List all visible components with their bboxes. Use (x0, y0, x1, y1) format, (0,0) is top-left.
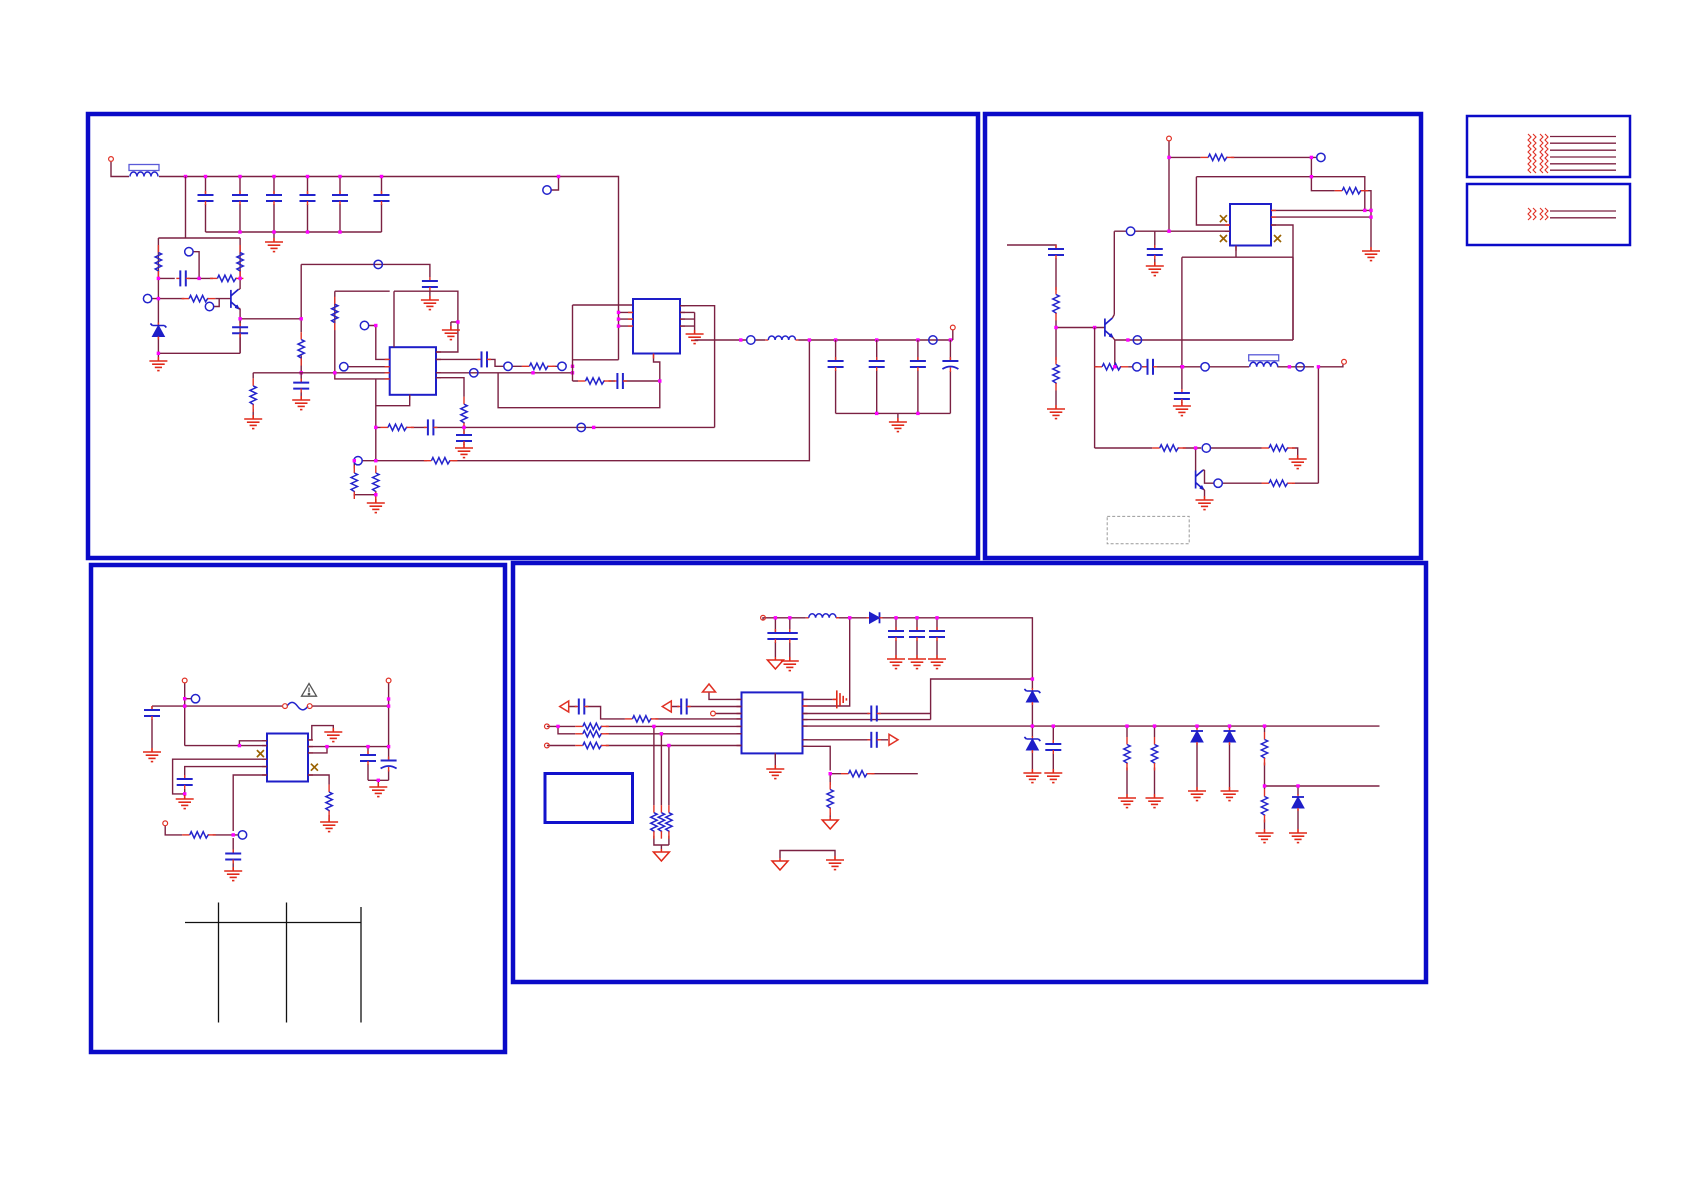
port TP13 (747, 336, 755, 344)
resistor R10 (381, 424, 415, 430)
port TP6 (360, 321, 368, 329)
capacitor C42 (888, 627, 904, 641)
IC U3 (1230, 204, 1271, 246)
capacitor C18 polarized (942, 357, 958, 372)
wire U5 left nets (547, 693, 742, 850)
capacitor C12 (456, 431, 472, 445)
capacitor C45 (575, 699, 589, 715)
port TP2 (185, 248, 193, 256)
wire top net (1169, 141, 1371, 247)
pin P2 output (950, 325, 955, 330)
resistor R48 (827, 782, 833, 816)
resistor R8 (522, 363, 556, 369)
ground osc (149, 357, 167, 371)
resistor R44 (651, 805, 657, 839)
port TP31 (238, 831, 246, 839)
resistor R45 (658, 805, 664, 839)
note2 red squiggle text (1528, 208, 1548, 220)
U5 pin stubs (737, 699, 808, 758)
power arrow up (703, 684, 716, 692)
ground R52 (1256, 829, 1274, 843)
wire row y448 (1095, 448, 1298, 471)
IC U4 (267, 734, 308, 782)
note1 red squiggle text (1528, 134, 1548, 173)
capacitor C16 (869, 357, 885, 371)
wire IC1 top cap hat (394, 291, 458, 352)
wire IC1 right row1 (436, 359, 558, 366)
ground C41 (781, 657, 799, 671)
IC U5 (742, 692, 803, 753)
x-mark U3 pin3 (1274, 235, 1281, 242)
ground cap bank (265, 238, 283, 252)
port TP26 (1202, 444, 1210, 452)
power ground R bundle (653, 849, 669, 861)
junction top net (774, 616, 777, 619)
capacitor C34 polarized (381, 757, 397, 772)
port TP3 (143, 294, 151, 302)
port TP20 (1317, 153, 1325, 161)
junction U3 nets (1167, 230, 1170, 233)
junction U5 right (829, 772, 832, 775)
junction row 427 (374, 426, 377, 429)
ground D7 (1289, 829, 1307, 843)
ground tie right (826, 856, 844, 870)
capacitor C20 (1147, 245, 1163, 259)
junction x301 (300, 317, 303, 320)
panel 2 frame (985, 114, 1421, 558)
junction row 448 (1194, 446, 1197, 449)
zener D3 (1024, 688, 1040, 705)
port TP14 (929, 336, 937, 344)
resistor R6 (250, 378, 256, 412)
diode D7 (1292, 794, 1304, 811)
resistor R40 (625, 716, 659, 722)
rotated ground U5 (833, 690, 847, 708)
capacitor C17 (910, 357, 926, 371)
pin P6 (386, 678, 391, 683)
port TP23 (1133, 363, 1141, 371)
ground caps right (369, 783, 387, 797)
ground R49 (1118, 794, 1136, 808)
wire osc row1 (158, 252, 213, 279)
ground R13 (367, 499, 385, 513)
ground C30 (143, 748, 161, 762)
port TP9 (558, 362, 566, 370)
port TP5 (374, 260, 382, 268)
capacitor C33 (360, 751, 376, 765)
ground C23 (1173, 402, 1191, 416)
port TP8 (504, 362, 512, 370)
signal arrow A2 (662, 701, 671, 712)
U2 pin stubs (628, 306, 685, 359)
junction osc row1 (157, 277, 160, 280)
wire top power net (763, 618, 1032, 720)
ground C31 (176, 795, 194, 809)
capacitor C11 (478, 351, 492, 367)
capacitor C43 (909, 627, 925, 641)
wire Q3 nets (1203, 470, 1318, 496)
port TP4 (205, 302, 213, 310)
junction base (1054, 326, 1057, 329)
inductor L2 (806, 614, 839, 618)
x-mark U3 pin2 (1220, 235, 1227, 242)
signal arrow A3 (889, 734, 898, 745)
junction osc bottom (157, 297, 160, 300)
power ground C40 (767, 657, 783, 669)
ground Q3 emitter (1196, 496, 1214, 510)
ground R26 (1289, 455, 1307, 469)
resistor R4 (182, 295, 216, 301)
capacitor C6 (374, 191, 390, 205)
wire top nets (152, 683, 389, 748)
pin P4 (1342, 359, 1347, 364)
wire row y460.7 (354, 340, 809, 499)
port TP22 (1133, 336, 1141, 344)
resistor R51 (1261, 732, 1267, 766)
wire IC2 right (680, 306, 715, 428)
pin P1 input (109, 157, 114, 162)
resistor R12 (351, 466, 357, 500)
resistor R2 (237, 245, 243, 279)
wire Q1 collector emitter (238, 289, 301, 353)
fuse F1 end circles (283, 704, 288, 709)
junction rail (1031, 724, 1034, 727)
signal arrow A1 (560, 701, 569, 712)
port TP11 (577, 423, 585, 431)
ground U1 top right (442, 326, 460, 340)
ground C32 (224, 867, 242, 881)
note2 lines (1550, 211, 1616, 218)
wire long row y372.8 (253, 373, 390, 415)
wire U3 bottom nets (1114, 225, 1293, 402)
junction row 460 (374, 459, 377, 462)
ground C9 (421, 296, 439, 310)
panel 3 frame (91, 565, 505, 1052)
panel 1 frame (88, 114, 978, 558)
capacitor C30 (144, 706, 160, 720)
capacitor C13 (424, 419, 438, 435)
capacitor C32 (225, 850, 241, 864)
junction top (183, 697, 186, 700)
ground R31 (320, 818, 338, 832)
resistor R1 (155, 245, 161, 279)
capacitor C2 (232, 191, 248, 205)
resistor R41 (575, 723, 609, 729)
junction U4 right (325, 745, 328, 748)
wire top rail net VIN (111, 162, 619, 360)
blue note box (545, 774, 633, 823)
resistor R23 (1053, 357, 1059, 391)
wire mid vertical x301 (301, 264, 430, 372)
resistor R52 (1261, 789, 1267, 823)
inductor L1 (765, 336, 798, 340)
zener diode D1 (150, 323, 166, 340)
junction dots top rail (184, 175, 187, 178)
wire oscillator block outline (158, 177, 240, 358)
capacitor C9 (422, 277, 438, 291)
capacitor C48 (867, 732, 881, 748)
port TP30 (191, 695, 199, 703)
junction row 366 (1181, 365, 1184, 368)
port TP10 (470, 369, 478, 377)
wire U5 right nets (775, 699, 1379, 817)
capacitor C1 (198, 191, 214, 205)
diode D5 (1191, 728, 1203, 745)
ground D6 (1221, 787, 1239, 801)
capacitor C47 (867, 706, 881, 722)
port TP12 (354, 457, 362, 465)
capacitor C46 (677, 699, 691, 715)
junction U5 left (556, 725, 559, 728)
fuse F1 (287, 702, 308, 710)
junction Q2 (1126, 338, 1129, 341)
IC U2 (633, 299, 680, 354)
resistor R14 (578, 378, 612, 384)
U3 pin stubs (1225, 210, 1276, 250)
junction bottom row (232, 833, 235, 836)
ground C43 (908, 655, 926, 669)
transistor Q2 (1105, 318, 1113, 337)
wire U4 top right ground (308, 726, 333, 740)
ground D5 (1188, 787, 1206, 801)
ground R6 (244, 415, 262, 429)
capacitor C14 (613, 373, 627, 389)
pin P7 (163, 821, 168, 826)
diode D6 (1224, 728, 1236, 745)
resistor R3 (210, 275, 244, 281)
junction output caps (875, 412, 878, 415)
junction U1 right (456, 320, 459, 323)
note box 1 (1467, 116, 1630, 177)
resistor R31 (326, 785, 332, 819)
capacitor C22 (1144, 359, 1158, 375)
capacitor C8 (232, 323, 248, 337)
resistor R22 (1053, 287, 1059, 321)
wire IC1 left connections (335, 291, 390, 379)
ground R23 (1047, 405, 1065, 419)
capacitor C3 (266, 191, 282, 205)
wire Q2 collector emitter (1112, 257, 1293, 367)
capacitor C15 (828, 357, 844, 371)
wire row y427.4 (376, 379, 715, 461)
power ground R48 (822, 817, 838, 829)
resistor R21 (1335, 188, 1369, 194)
capacitor C31 (177, 775, 193, 789)
wire U4 bottom resistor (308, 775, 329, 818)
resistor R20 (1201, 154, 1235, 160)
junction top net (1167, 156, 1170, 159)
capacitor C7 (176, 270, 190, 286)
ground C49 (1044, 769, 1062, 783)
wire osc row2 base (152, 299, 231, 307)
wire output rail y340 (695, 330, 953, 340)
pin P9 (711, 711, 716, 716)
resistor R27 (1262, 480, 1296, 486)
resistor R42 (575, 731, 609, 737)
junction IC2 left (617, 311, 620, 314)
ground C44 (928, 655, 946, 669)
transistor Q3 (1196, 470, 1204, 489)
pin P3 (1167, 136, 1172, 141)
transistor Q1 (231, 289, 239, 308)
junction IC1 left (374, 324, 377, 327)
capacitor C40 (767, 629, 783, 643)
capacitor C10 (293, 379, 309, 393)
ground C10 (292, 396, 310, 410)
table lines (185, 903, 361, 1023)
ground C12 (455, 444, 473, 458)
wire ground tie (780, 851, 835, 859)
ground U2 (686, 330, 704, 344)
capacitor C5 (332, 191, 348, 205)
port TP24 (1201, 363, 1209, 371)
pin P10 (545, 724, 550, 729)
ferrite bead FB2 (1249, 355, 1279, 367)
resistor R49 (1124, 737, 1130, 771)
wire output caps (836, 340, 951, 418)
resistor R24 (1095, 364, 1129, 370)
ferrite bead FB1 (129, 165, 159, 177)
resistor R11 (424, 458, 458, 464)
diode D2 (867, 612, 883, 623)
resistor R25 (1152, 445, 1186, 451)
resistor R9 (461, 397, 467, 431)
resistor R5 (298, 332, 304, 366)
port TP7 (340, 363, 348, 371)
power ground tie left (772, 858, 788, 870)
capacitor C44 (929, 627, 945, 641)
resistor R30 (182, 832, 216, 838)
resistor R13 (373, 466, 379, 500)
x-mark U4 left (257, 750, 264, 757)
ground C42 (887, 655, 905, 669)
ground output caps (889, 418, 907, 432)
wire cap bank stems (206, 177, 382, 239)
pin P11 (545, 743, 550, 748)
wire IC2 left box (498, 305, 660, 408)
junction output rail (739, 338, 742, 341)
U4 pin stubs (262, 740, 313, 775)
resistor R50 (1151, 737, 1157, 771)
port TP27 (1214, 479, 1222, 487)
capacitor C41 (782, 629, 798, 643)
capacitor C4 (300, 191, 316, 205)
pin P5 (182, 678, 187, 683)
warning triangle (302, 684, 317, 697)
ground R21 (1362, 247, 1380, 261)
dashed note rectangle (1107, 516, 1189, 543)
ground U5 bottom (766, 765, 784, 779)
capacitor C49 (1045, 740, 1061, 754)
wire U4 left nets (173, 741, 267, 867)
ground R50 (1146, 794, 1164, 808)
wire IC1 right row y372.8 (436, 373, 573, 444)
wire row y366.8 (1095, 328, 1343, 484)
ground U4 top (324, 728, 342, 742)
ground C20 (1146, 262, 1164, 276)
x-mark U4 right (311, 764, 318, 771)
junction R13 (374, 493, 377, 496)
resistor R47 (841, 771, 875, 777)
U1 pin stubs (385, 352, 441, 400)
capacitor C23 (1174, 389, 1190, 403)
panel 4 frame (513, 563, 1426, 982)
x-mark U3 pin (1220, 215, 1227, 222)
resistor R43 (575, 742, 609, 748)
pin P8 (761, 615, 766, 620)
note1 lines (1550, 137, 1616, 171)
capacitor C21 (1048, 245, 1064, 259)
resistor R7 (332, 297, 338, 331)
wire bottom row (165, 826, 238, 835)
resistor R26 (1262, 445, 1296, 451)
junction U4 left (238, 744, 241, 747)
port TP21 (1126, 227, 1134, 235)
wire main rail branches (1032, 687, 1379, 829)
IC U1 (390, 347, 436, 395)
ground D4 (1023, 769, 1041, 783)
port TP25 (1296, 363, 1304, 371)
junction right rows (531, 371, 534, 374)
note box 2 (1467, 184, 1630, 245)
wire left input net (1007, 245, 1105, 405)
resistor R46 (666, 805, 672, 839)
zener D4 (1024, 736, 1040, 753)
port TP1 (543, 186, 551, 194)
wire U4 right nets (308, 747, 389, 783)
